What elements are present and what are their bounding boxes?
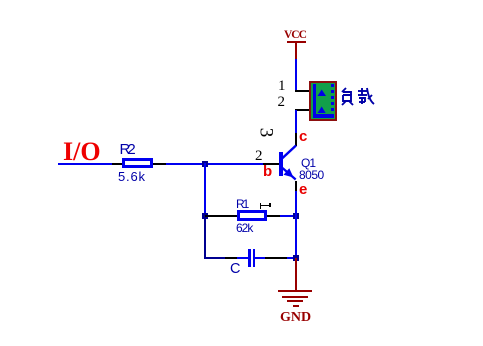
label e (emitter) [299,182,307,197]
wire C right pin (black) [265,257,287,259]
wire collector pin stub (black) [295,133,297,146]
wire R2 right pin (black) [153,163,166,165]
wire base pin stub (black) [263,163,279,165]
pin 3 label (rotated) [256,128,275,138]
wire left rail down (blue) [204,163,206,217]
wire R2 to base (blue) [166,163,263,165]
connector pin arrow 1 [317,89,327,97]
connector pin arrow 2 [317,106,327,114]
label 62k [236,222,252,234]
connector inner left blue band [313,84,316,117]
connector inner bottom blue band [313,114,334,118]
wire R1 right pin (black) [267,215,280,217]
capacitor C left plate [248,249,251,267]
label 5.6k [118,170,146,183]
wire I/O row blue left [58,163,112,165]
pin 2 label (base) [255,149,263,164]
node VCC label [284,30,306,42]
wire connector pin2 stub [295,109,310,111]
label R2 [120,142,133,157]
label c (collector) [299,129,307,144]
wire connector pin2 down to collector (blue) [295,110,297,133]
wire emitter rail down (blue) [295,191,297,258]
transistor Q1 symbol [270,140,306,185]
wire R1 left pin (black) [205,215,237,217]
wire R1 to emitter rail (blue) [280,215,295,217]
power symbol VCC bar [287,41,306,43]
pin 1 label (connector) [278,79,286,94]
wire R2 left pin (black) [112,163,122,165]
label Q1 [301,157,315,169]
junction node at base branch [202,161,208,167]
ground symbol bar2 [282,296,308,298]
ground symbol bar4 [293,305,299,307]
wire cap row left (navy) [204,257,226,259]
label b (base) [263,164,272,179]
pin number 1 of R1 (rotated digit) [260,205,271,207]
wire emitter pin stub (black) [295,181,297,191]
label C [230,262,240,277]
junction node cap row right [293,255,299,261]
junction node R1 right [293,213,299,219]
wire to emitter rail (blue) [287,257,295,259]
wire to ground (dark red) [295,258,297,291]
resistor R2 body [122,158,153,168]
connector J1 body [309,81,337,121]
wire connector pin1 stub [295,90,310,92]
connector label (Chinese: load) [339,87,377,107]
wire to C left plate (blue) [237,257,248,259]
ground symbol bar3 [287,300,303,302]
node I/O label [63,139,101,165]
wire left rail down lower (navy) [204,217,206,258]
capacitor C right plate [253,249,256,267]
resistor R1 body [237,210,267,221]
label R1 [236,198,247,210]
wire C right plate out (blue) [255,257,265,259]
label 8050 [299,169,324,181]
ground symbol bar1 [278,290,312,292]
connector inner right dashed blue band [331,84,334,115]
wire VCC to connector pin1 (blue) [295,59,297,91]
node GND label [280,311,311,325]
wire C left pin (black) [225,257,237,259]
pin 2 label (connector) [278,95,286,110]
junction node R1 left [202,213,208,219]
wire VCC stub (dark red) [295,42,297,59]
